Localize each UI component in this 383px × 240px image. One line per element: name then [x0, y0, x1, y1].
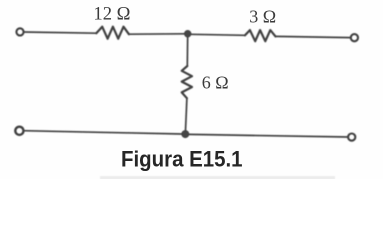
resistor R2 3Ω zigzag	[245, 30, 276, 41]
wire node A down to R3	[186, 34, 188, 66]
terminal bottom-left	[15, 127, 23, 135]
resistor R1 12Ω zigzag	[96, 27, 129, 39]
scan shadow bottom edge	[100, 176, 335, 180]
resistor R3 6Ω zigzag	[182, 66, 192, 98]
svg-text:12 Ω: 12 Ω	[93, 3, 130, 24]
node B junction dot	[182, 131, 189, 138]
terminal bottom-right	[348, 134, 355, 141]
wire node A to R2	[191, 34, 245, 35]
wire R2 to top-right terminal	[276, 36, 351, 37]
wire bottom-left segment	[23, 131, 181, 134]
wire top-left segment	[24, 32, 97, 33]
terminal top-left	[16, 28, 23, 35]
svg-text:Figura E15.1: Figura E15.1	[121, 146, 243, 171]
wire R1 to node A	[129, 33, 185, 35]
node A junction dot	[184, 30, 191, 37]
svg-text:6 Ω: 6 Ω	[202, 73, 229, 93]
wire bottom-right segment	[189, 134, 348, 137]
terminal top-right	[351, 34, 358, 41]
wire R3 down to node B	[185, 98, 187, 133]
svg-text:3 Ω: 3 Ω	[249, 7, 276, 27]
